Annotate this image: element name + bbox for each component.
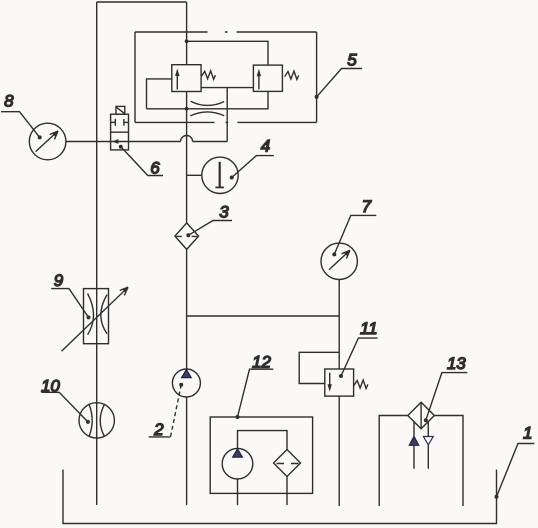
gauge 8 needle bbox=[36, 131, 58, 152]
pump 2 body bbox=[172, 369, 200, 397]
relief valve U2 internal arrow bbox=[257, 69, 261, 90]
filter 12 diamond bbox=[274, 450, 301, 477]
filter 3 diamond bbox=[175, 223, 199, 250]
svg-text:11: 11 bbox=[360, 319, 378, 338]
wire left riser x=96.7 bbox=[96, 2, 98, 505]
relief valve U2 body bbox=[253, 65, 282, 91]
thermometer 4 body bbox=[202, 157, 238, 193]
svg-text:5: 5 bbox=[347, 50, 357, 69]
sensor 6 body bbox=[111, 114, 129, 150]
filter 3 element dashes bbox=[176, 235, 197, 237]
label 13 leader with shelf bbox=[424, 373, 468, 423]
wire gauge-8 sense line with hop over main riser bbox=[66, 136, 227, 142]
breather 13 intake triangle bbox=[409, 436, 418, 445]
wire mid crossover y=316 bbox=[187, 315, 340, 317]
svg-text:4: 4 bbox=[261, 136, 270, 155]
label 2 dashed leader with shelf bbox=[149, 383, 184, 437]
svg-text:7: 7 bbox=[362, 197, 372, 216]
solenoid head of sensor 6 bbox=[116, 106, 125, 114]
pump 12 body bbox=[222, 448, 253, 479]
gauge 8 body bbox=[29, 123, 66, 160]
label 7 leader with shelf bbox=[332, 215, 376, 256]
svg-text:13: 13 bbox=[447, 354, 466, 373]
gauge 7 body bbox=[321, 243, 357, 279]
wire gauge 7 branch lower to tank bbox=[338, 396, 340, 506]
wire main riser upper (into valve U1 top) bbox=[186, 2, 188, 65]
wire venturi throat line bbox=[147, 91, 269, 108]
svg-text:12: 12 bbox=[252, 353, 271, 372]
label 8 leader with shelf bbox=[1, 112, 42, 140]
thermometer 4 stem bbox=[215, 162, 224, 188]
breather 13 exhaust triangle bbox=[423, 437, 433, 445]
relief valve 11 internal arrow bbox=[328, 373, 332, 392]
sensor 6 upper chamber contacts bbox=[111, 119, 129, 126]
relief valve U2 spring bbox=[285, 71, 299, 80]
breather 13 diamond bbox=[408, 402, 435, 429]
throttle 9 adjustment arrow bbox=[62, 287, 129, 351]
throttle 9 venturi arcs bbox=[88, 294, 107, 335]
svg-text:9: 9 bbox=[54, 271, 64, 290]
wire main riser lower (filter 3 bottom to pump 2 top) bbox=[186, 249, 188, 369]
wire gauge 7 branch upper bbox=[338, 280, 340, 370]
throttle 10 venturi arcs bbox=[89, 405, 104, 436]
wire top header from left riser to main riser bbox=[97, 1, 187, 3]
svg-text:1: 1 bbox=[523, 424, 532, 443]
label 10 leader with shelf bbox=[42, 392, 90, 424]
throttle 9 body bbox=[84, 289, 109, 344]
wire gauge 4 stub bbox=[187, 174, 202, 176]
label 3 leader with shelf bbox=[186, 221, 232, 238]
wire valve 11 pilot loop bbox=[299, 352, 339, 383]
wire main riser mid (valve U1 bottom to filter 3 top) bbox=[186, 92, 188, 223]
relief valve 11 body bbox=[325, 369, 354, 396]
junction dot at inner loop tee bbox=[185, 39, 189, 43]
label 6 leader with shelf bbox=[119, 145, 163, 176]
relief valve 11 spring bbox=[354, 380, 368, 389]
label 5 leader with shelf bbox=[315, 69, 363, 99]
svg-text:10: 10 bbox=[41, 376, 60, 395]
label 11 leader with shelf bbox=[339, 338, 378, 378]
svg-text:2: 2 bbox=[153, 420, 164, 439]
label 12 leader with shelf bbox=[236, 369, 274, 419]
relief valve U1 spring bbox=[201, 71, 215, 80]
power unit 12 enclosure bbox=[210, 417, 312, 493]
svg-text:8: 8 bbox=[4, 92, 14, 111]
svg-text:3: 3 bbox=[219, 202, 229, 221]
filter 12 element dashes bbox=[277, 463, 299, 465]
wire inner loop to valve U2 top bbox=[187, 41, 268, 65]
wire filter 12 tank drop bbox=[286, 477, 288, 506]
breather 13 intake line bbox=[413, 422, 415, 469]
label 4 leader with shelf bbox=[230, 156, 274, 180]
tank 1 walls bbox=[63, 470, 497, 524]
label 1 leader with shelf bbox=[495, 444, 535, 499]
label 9 leader with shelf bbox=[51, 289, 90, 320]
breather 13 exhaust line bbox=[427, 422, 429, 469]
wire pump 12 tank drop bbox=[237, 479, 239, 505]
gauge 7 needle bbox=[329, 250, 350, 269]
pump 12 flow triangle bbox=[233, 449, 243, 457]
wire main riser tank drop (pump 2 bottom to tank) bbox=[186, 397, 188, 505]
junction dot throat line on main riser bbox=[185, 107, 189, 111]
sensor 6 flow arrow bbox=[112, 139, 118, 144]
relief valve U1 internal arrow bbox=[175, 69, 179, 90]
venturi orifice arcs bbox=[190, 101, 224, 116]
wire pump 12 to filter 12 link bbox=[238, 431, 288, 450]
wire valve U1 left pilot loop bbox=[147, 79, 172, 109]
wire inter-valve link bbox=[201, 87, 253, 89]
wire pressure tap drop x=227.2 bbox=[226, 88, 228, 142]
breather 13 housing bbox=[379, 416, 463, 507]
relief valve U1 body bbox=[172, 65, 201, 92]
pump 2 flow triangle bbox=[182, 370, 192, 378]
throttle 10 body bbox=[79, 403, 114, 438]
enclosure box 5 dash-dot frame bbox=[135, 32, 317, 122]
svg-text:6: 6 bbox=[150, 159, 160, 178]
